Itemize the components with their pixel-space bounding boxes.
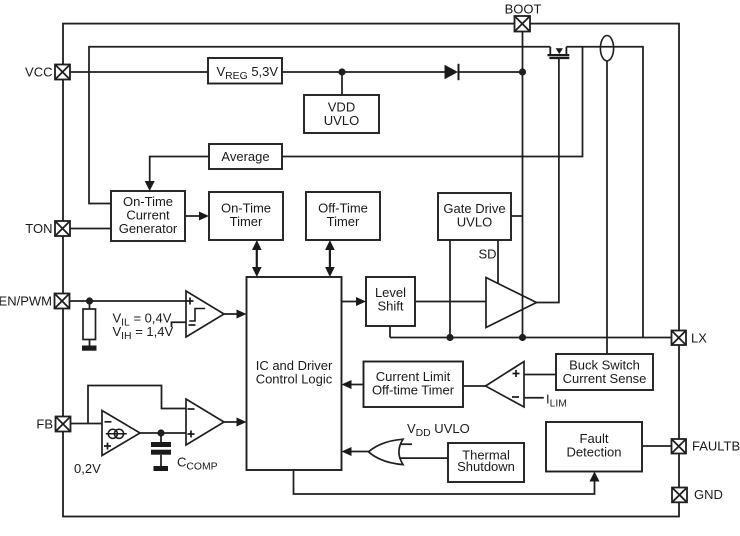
block Off-Time Timer <box>306 192 380 240</box>
arrowhead EN comparator into IC logic <box>237 310 247 319</box>
block Fault Detection <box>546 422 642 472</box>
wire Average output to top rail <box>282 47 583 157</box>
diode D1 <box>445 65 459 79</box>
current sense ellipse on switch node <box>600 36 613 61</box>
junction node VREG/VDD UVLO <box>338 68 345 75</box>
wire IC logic to Level Shift <box>342 301 358 303</box>
svg-text:BOOT: BOOT <box>505 2 542 17</box>
svg-text:Shutdown: Shutdown <box>457 459 515 474</box>
wire OR gate output to IC logic <box>351 451 369 453</box>
wire EN comparator output <box>224 313 238 315</box>
pin VCC <box>55 16 688 502</box>
arrowhead into On-Time Timer <box>199 212 209 221</box>
capacitor CCOMP plates <box>151 442 171 447</box>
wire right drop from top rail to LX rail <box>566 47 643 338</box>
block IC and Driver Control Logic <box>247 277 342 470</box>
ground below CCOMP <box>154 466 169 471</box>
op-amp U2 error amplifier gm <box>102 411 140 456</box>
block Level Shift <box>366 277 415 326</box>
block VDD UVLO <box>304 95 379 133</box>
wire PWM comparator output <box>224 421 238 423</box>
pin FB <box>56 417 71 432</box>
outer IC boundary box <box>63 24 679 517</box>
wire ellipse stem to Buck Switch Current Sense <box>606 61 608 354</box>
svg-text:UVLO: UVLO <box>457 215 492 230</box>
wire Current Limit Off-time Timer to IC logic <box>351 384 364 386</box>
junction node LX rail / Gate Drive UVLO <box>446 334 453 341</box>
arrowhead OR gate into IC logic <box>342 447 352 456</box>
op-amp U3 PWM comparator <box>186 399 224 445</box>
junction node BOOT/diode <box>519 68 526 75</box>
wire Average to On-Time Current Generator <box>150 157 209 183</box>
wire VREG output to diode anode <box>282 71 445 73</box>
svg-text:Average: Average <box>221 149 269 164</box>
arrowhead Average into On-Time Current Generator <box>145 181 155 191</box>
op-amp U4 gate driver buffer <box>486 278 537 328</box>
ground below resistor <box>82 346 97 351</box>
svg-text:Timer: Timer <box>230 214 263 229</box>
wire Ccomp stems <box>160 433 162 466</box>
svg-text:LX: LX <box>691 331 707 346</box>
wire current limit comparator plus to Buck Switch Current Sense <box>524 374 556 376</box>
block Gate Drive UVLO <box>438 193 511 240</box>
block Current Limit Off-time Timer <box>364 362 464 408</box>
block On-Time Timer <box>209 192 283 240</box>
arrowhead Current Limit into IC logic <box>342 380 352 389</box>
wire IC logic bottom to Fault Detection <box>294 470 595 494</box>
double arrow Off-Time Timer / IC logic <box>325 240 335 250</box>
svg-text:Off-time Timer: Off-time Timer <box>372 383 455 398</box>
wire OR gate input VDD UVLO stub <box>398 443 413 445</box>
svg-text:Current Sense: Current Sense <box>563 371 647 386</box>
block Buck Switch Current Sense <box>556 354 653 390</box>
double arrow On-Time Timer / IC logic <box>252 240 262 250</box>
svg-text:Timer: Timer <box>327 214 360 229</box>
svg-text:SD: SD <box>478 247 496 262</box>
wire LX rail <box>390 337 672 339</box>
svg-text:EN/PWM: EN/PWM <box>0 294 52 309</box>
svg-text:0,2V: 0,2V <box>74 461 101 476</box>
wire FB to error amplifier <box>70 423 102 425</box>
wire VCC to VREG <box>70 71 208 73</box>
svg-text:FB: FB <box>36 417 53 432</box>
junction node LX rail / BOOT line <box>519 334 526 341</box>
wire Gate Drive UVLO SD stub <box>497 240 499 284</box>
pin TON <box>55 221 70 236</box>
svg-text:Shift: Shift <box>377 299 403 314</box>
wire error amp output to PWM comparator plus <box>140 432 186 434</box>
resistor R (EN/PWM pulldown) <box>83 309 96 340</box>
wire top feedback rail to On-Time Current Generator <box>89 47 550 204</box>
wire Level Shift to gate driver <box>415 301 486 303</box>
pin BOOT <box>515 16 531 32</box>
arrowhead into Fault Detection bottom <box>590 472 600 482</box>
pin FAULTB <box>672 439 687 454</box>
svg-text:TON: TON <box>25 221 52 236</box>
junction node EN/PWM resistor <box>86 297 93 304</box>
wire On-Time Current Generator to On-Time Timer <box>185 215 200 217</box>
svg-text:UVLO: UVLO <box>324 113 359 128</box>
block VREG 5,3V <box>208 58 282 84</box>
op-amp U5 current limit comparator <box>486 362 525 408</box>
wire diode cathode to BOOT node <box>459 71 523 73</box>
svg-text:Control Logic: Control Logic <box>256 372 333 387</box>
wire current limit comparator output <box>463 385 486 387</box>
wire Level Shift bottom to LX rail <box>389 326 391 338</box>
svg-text:Generator: Generator <box>119 221 178 236</box>
wire Gate Drive UVLO to BOOT line <box>511 215 523 217</box>
svg-text:GND: GND <box>694 487 723 502</box>
wire comparator minus reference stub <box>172 322 187 327</box>
wire TON to On-Time Current Generator <box>70 228 111 230</box>
pin GND <box>672 488 687 503</box>
wire FB detour to PWM comparator minus <box>88 386 186 424</box>
block Average <box>209 144 282 169</box>
pin EN/PWM <box>55 294 70 309</box>
transistor Q1 buck switch FET <box>548 47 570 58</box>
svg-text:Detection: Detection <box>567 445 622 460</box>
pin LX <box>672 331 687 346</box>
block On-Time Current Generator <box>111 191 185 241</box>
arrowhead PWM comparator into IC logic <box>237 418 247 427</box>
svg-text:FAULTB: FAULTB <box>692 439 740 454</box>
wire EN/PWM to comparator <box>70 300 187 302</box>
wire gate driver output up to FET gate <box>537 59 559 303</box>
wire BOOT vertical down to LX rail <box>522 32 524 338</box>
block Thermal Shutdown <box>448 443 524 482</box>
wire VDD UVLO tap <box>341 72 343 95</box>
junction node COMP <box>157 429 164 436</box>
wire resistor stems <box>89 301 91 346</box>
wire Gate Drive UVLO left stub to LX rail <box>449 240 451 338</box>
op-amp U1 EN hysteresis comparator <box>186 291 224 337</box>
OR gate U6 fault OR <box>369 439 404 464</box>
wire Thermal Shutdown to OR gate <box>398 457 449 459</box>
wire Fault Detection to FAULTB <box>642 445 671 447</box>
wire current limit comparator minus stub ILIM <box>524 397 544 399</box>
arrowhead IC logic into Level Shift <box>356 297 366 306</box>
svg-text:VCC: VCC <box>25 65 52 80</box>
